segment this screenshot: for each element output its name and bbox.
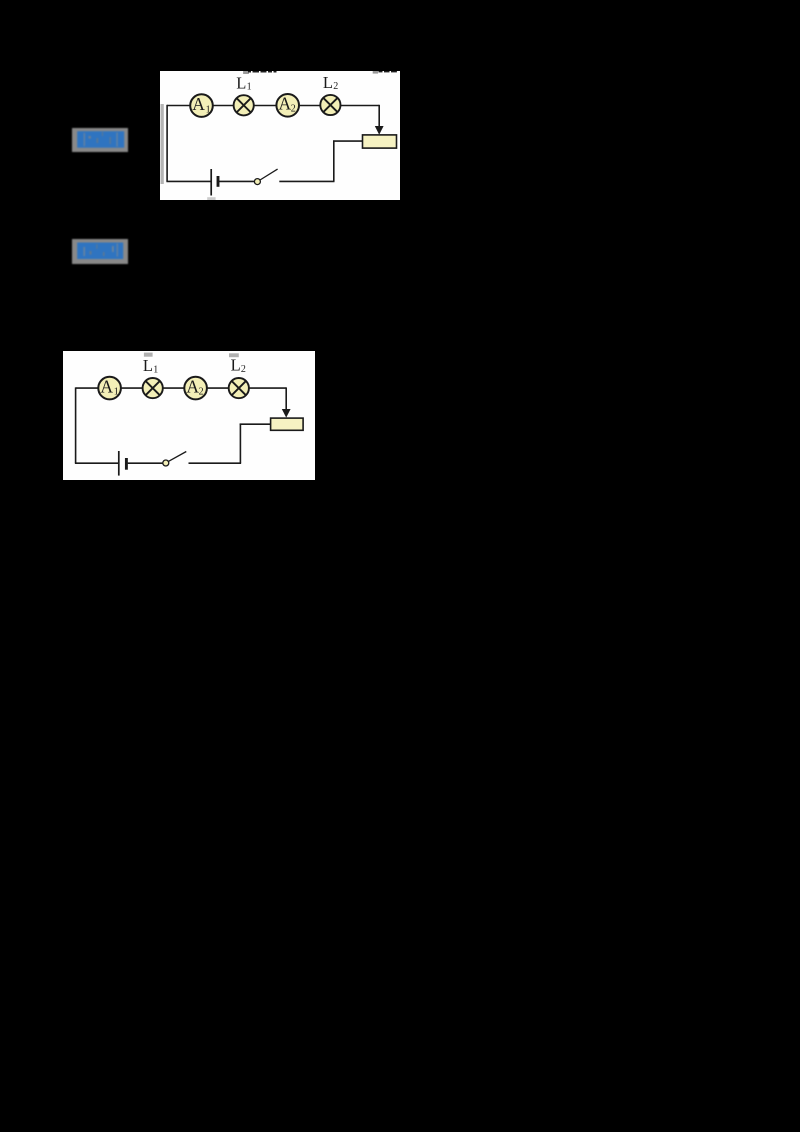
svg-text:L: L	[143, 356, 153, 375]
svg-text:L: L	[231, 356, 241, 375]
svg-text:1: 1	[206, 104, 211, 115]
battery short plate (negative)	[217, 176, 220, 187]
wire: switch to right riser	[279, 180, 334, 182]
rheostat R (slide resistor)	[363, 135, 397, 148]
clipped text remnant dark dashes left	[248, 71, 251, 73]
wire: arrow drop from top right corner	[285, 387, 287, 410]
wire: right riser vertical	[333, 140, 335, 181]
wire: top horizontal	[76, 387, 287, 389]
wire: bottom left segment to battery	[166, 180, 210, 182]
wire: battery to switch	[128, 462, 164, 464]
lamp L2	[320, 95, 340, 115]
ammeter A2	[184, 377, 207, 400]
svg-text:2: 2	[333, 81, 338, 92]
wire: bottom left segment to battery	[75, 462, 118, 464]
wire: riser to rheostat left terminal	[333, 140, 362, 142]
arrowhead onto rheostat	[282, 409, 291, 418]
ammeter A2	[276, 94, 299, 117]
clipped text remnant gray square right	[373, 71, 378, 74]
lamp L2	[229, 378, 249, 398]
svg-text:1: 1	[114, 387, 119, 398]
gray scrollbar-like bar at left edge	[161, 104, 164, 184]
switch S pivot	[254, 179, 260, 185]
svg-text:1: 1	[247, 82, 252, 93]
switch lever	[168, 452, 186, 462]
arrowhead onto rheostat	[375, 126, 384, 135]
wire: switch to right riser	[189, 462, 242, 464]
svg-text:L: L	[323, 73, 333, 92]
wire: left vertical	[166, 105, 168, 182]
blue tag 1 (blurred CJK caption on gray box)	[72, 128, 128, 157]
clipped text remnant gray smudge right	[229, 353, 239, 357]
rheostat R (slide resistor)	[271, 418, 304, 430]
wire: battery to switch	[219, 180, 255, 182]
figure panel 1 (white background)	[160, 71, 400, 200]
clipped text remnant gray smudge left	[144, 353, 153, 357]
svg-text:A: A	[278, 94, 291, 114]
clipped text remnant gray square left	[243, 71, 249, 74]
wire: riser to rheostat left terminal	[240, 423, 271, 425]
svg-text:A: A	[192, 94, 205, 114]
switch S pivot	[163, 460, 169, 466]
svg-text:A: A	[100, 376, 113, 396]
light gray smudge under battery	[207, 197, 215, 200]
blue tag 2 (blurred CJK caption on gray box)	[72, 239, 128, 269]
figure panel 2 (white background)	[63, 351, 315, 480]
svg-text:A: A	[186, 376, 199, 396]
svg-text:2: 2	[199, 386, 204, 397]
lamp L1	[234, 95, 254, 115]
wire: arrow drop from top right corner	[378, 105, 380, 128]
svg-text:L: L	[236, 73, 246, 92]
lamp L1	[143, 378, 163, 398]
ammeter A1	[98, 377, 121, 400]
wire: top horizontal	[167, 105, 379, 107]
battery long plate (positive)	[118, 451, 120, 476]
switch lever	[260, 169, 278, 180]
clipped text remnant dark dashes right	[379, 71, 383, 72]
battery long plate (positive)	[210, 169, 212, 196]
svg-text:1: 1	[153, 365, 158, 376]
wire: left vertical	[75, 387, 77, 463]
wire: right riser vertical	[239, 424, 241, 464]
ammeter A1	[190, 94, 213, 117]
svg-text:2: 2	[291, 104, 296, 115]
svg-text:2: 2	[241, 364, 246, 375]
battery short plate (negative)	[125, 458, 128, 470]
